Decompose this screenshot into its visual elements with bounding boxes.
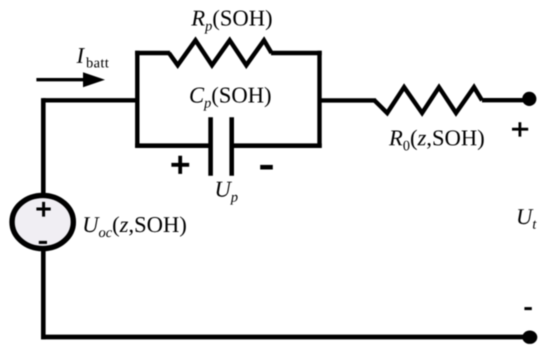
label I_batt	[76, 48, 108, 67]
wire: from R0 to positive terminal	[482, 98, 529, 102]
capacitor Cp plate left	[208, 117, 213, 175]
capacitor minus sign	[260, 165, 273, 170]
wire: top branch right stub	[271, 51, 322, 55]
RC block right edge	[317, 51, 321, 148]
wire: middle-right stub from RC block	[320, 98, 377, 102]
voltage source minus sign	[39, 241, 47, 244]
resistor Rp zigzag	[169, 40, 272, 65]
label Cp(SOH)	[190, 87, 270, 111]
wire: left vertical from node A down to source top	[41, 98, 46, 195]
label Uoc(z,SOH)	[84, 216, 186, 237]
wire: left vertical from source bottom to bottom rail	[41, 249, 46, 339]
wire: middle-left horizontal from node A to RC block	[43, 98, 140, 102]
capacitor Cp plate right	[229, 117, 234, 175]
label Rp(SOH)	[191, 10, 271, 34]
wire: bottom branch left stub to capacitor	[135, 143, 211, 148]
voltage source Uoc: ellipse body	[12, 195, 73, 248]
plus sign at positive terminal	[512, 122, 528, 136]
label R0(z,SOH)	[389, 130, 484, 151]
wire: bottom branch right stub from capacitor	[232, 143, 322, 148]
resistor R0 zigzag	[375, 87, 483, 113]
label Up	[217, 182, 238, 205]
label Ut	[518, 209, 537, 229]
terminal node: positive (top right dot)	[522, 92, 536, 106]
wire: top branch left stub	[135, 51, 170, 55]
capacitor plus sign	[171, 156, 189, 174]
wire: bottom rail horizontal	[41, 335, 529, 340]
RC block left edge	[135, 51, 139, 148]
voltage source plus sign	[36, 202, 50, 217]
terminal node: negative (bottom right dot)	[522, 331, 537, 344]
current arrow Ibatt	[36, 78, 86, 81]
minus sign at negative terminal	[524, 307, 531, 310]
